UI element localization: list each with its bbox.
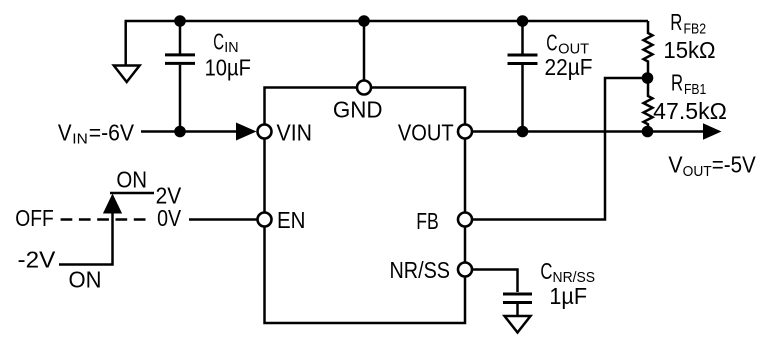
- label pin FB: [416, 208, 439, 234]
- node top rail junction at GND: [358, 15, 370, 27]
- label 15k: [663, 37, 715, 63]
- svg-text:ON: ON: [116, 167, 147, 193]
- node between RFB2 and RFB1: [642, 72, 654, 84]
- label pin NR/SS: [390, 257, 451, 283]
- svg-text:=-6V: =-6V: [89, 119, 135, 145]
- pin NR/SS: [458, 263, 472, 277]
- pin VIN: [258, 125, 272, 139]
- label ON bottom: [69, 267, 102, 293]
- svg-text:FB2: FB2: [684, 21, 707, 37]
- svg-text:OUT: OUT: [683, 164, 712, 180]
- label VIN=-6V: [58, 119, 135, 147]
- label CNR/SS: [540, 258, 595, 286]
- label RFB2: [670, 9, 706, 37]
- EN waveform: 0V dashed level: [61, 218, 146, 221]
- label 47.5k: [653, 98, 727, 124]
- label pin VOUT: [398, 120, 454, 146]
- svg-text:V: V: [668, 152, 683, 178]
- svg-text:C: C: [213, 28, 224, 54]
- capacitor COUT: [508, 21, 538, 132]
- capacitor CNR/SS: [503, 294, 532, 316]
- svg-text:FB1: FB1: [684, 82, 706, 98]
- label 10uF: [205, 55, 251, 81]
- ground (NR/SS): [505, 316, 531, 333]
- arrow VOUT output: [703, 123, 722, 139]
- op-amp U1 regulator body: [265, 88, 466, 324]
- resistor RFB1: [644, 78, 653, 132]
- node VOUT junction at RFB1: [642, 126, 654, 138]
- pin EN: [258, 213, 272, 227]
- ground (input side): [114, 21, 140, 82]
- svg-text:1µF: 1µF: [549, 283, 587, 309]
- label pin EN: [277, 207, 306, 233]
- arrow into VIN: [236, 123, 257, 141]
- wire: top rail: [125, 20, 649, 23]
- svg-text:R: R: [671, 70, 683, 96]
- wire: VOUT line: [473, 130, 704, 133]
- label ON top: [116, 167, 147, 193]
- pin VOUT: [458, 125, 472, 139]
- wire: EN input: [189, 218, 257, 221]
- svg-text:VIN: VIN: [277, 120, 313, 146]
- pin GND: [357, 81, 371, 95]
- label 1uF: [549, 283, 587, 309]
- wire: NR/SS to CNR/SS: [473, 270, 518, 293]
- svg-text:EN: EN: [277, 207, 306, 233]
- svg-text:C: C: [546, 30, 557, 56]
- svg-text:R: R: [670, 9, 682, 35]
- resistor RFB2: [644, 21, 653, 78]
- EN waveform: rising edge arrowhead: [103, 194, 122, 214]
- svg-text:10µF: 10µF: [205, 55, 251, 81]
- wire: VIN input: [141, 130, 238, 133]
- label pin GND: [333, 97, 383, 123]
- svg-text:0V: 0V: [157, 205, 182, 231]
- label RFB1: [671, 70, 706, 98]
- wire: feedback from divider to FB: [473, 78, 648, 220]
- svg-text:22µF: 22µF: [545, 54, 593, 80]
- node top rail junction at COUT: [517, 15, 529, 27]
- svg-text:47.5kΩ: 47.5kΩ: [653, 98, 727, 124]
- label CIN: [213, 28, 238, 56]
- label 2V: [156, 183, 182, 209]
- pin FB: [458, 213, 472, 227]
- capacitor CIN: [165, 21, 195, 132]
- svg-text:15kΩ: 15kΩ: [663, 37, 715, 63]
- node VOUT junction at COUT: [517, 126, 529, 138]
- svg-text:IN: IN: [72, 131, 88, 147]
- label -2V: [18, 247, 56, 273]
- svg-text:OFF: OFF: [15, 205, 54, 231]
- EN waveform: 2V level: [110, 192, 154, 195]
- label pin VIN: [277, 120, 313, 146]
- svg-text:V: V: [58, 119, 72, 145]
- label 0V: [157, 205, 182, 231]
- label 22uF: [545, 54, 593, 80]
- svg-text:=-5V: =-5V: [712, 152, 757, 178]
- label COUT: [546, 30, 589, 58]
- label VOUT=-5V: [668, 152, 756, 180]
- wire: GND riser: [363, 21, 366, 80]
- node top rail junction at CIN: [174, 15, 186, 27]
- node VIN input junction: [174, 126, 186, 138]
- svg-text:C: C: [540, 258, 552, 284]
- svg-text:-2V: -2V: [18, 247, 56, 273]
- svg-text:ON: ON: [69, 267, 102, 293]
- svg-text:NR/SS: NR/SS: [390, 257, 451, 283]
- EN waveform: -2V level and rising edge: [59, 212, 113, 265]
- svg-text:VOUT: VOUT: [398, 120, 454, 146]
- label OFF: [15, 205, 54, 231]
- svg-text:GND: GND: [333, 97, 383, 123]
- svg-text:FB: FB: [416, 208, 439, 234]
